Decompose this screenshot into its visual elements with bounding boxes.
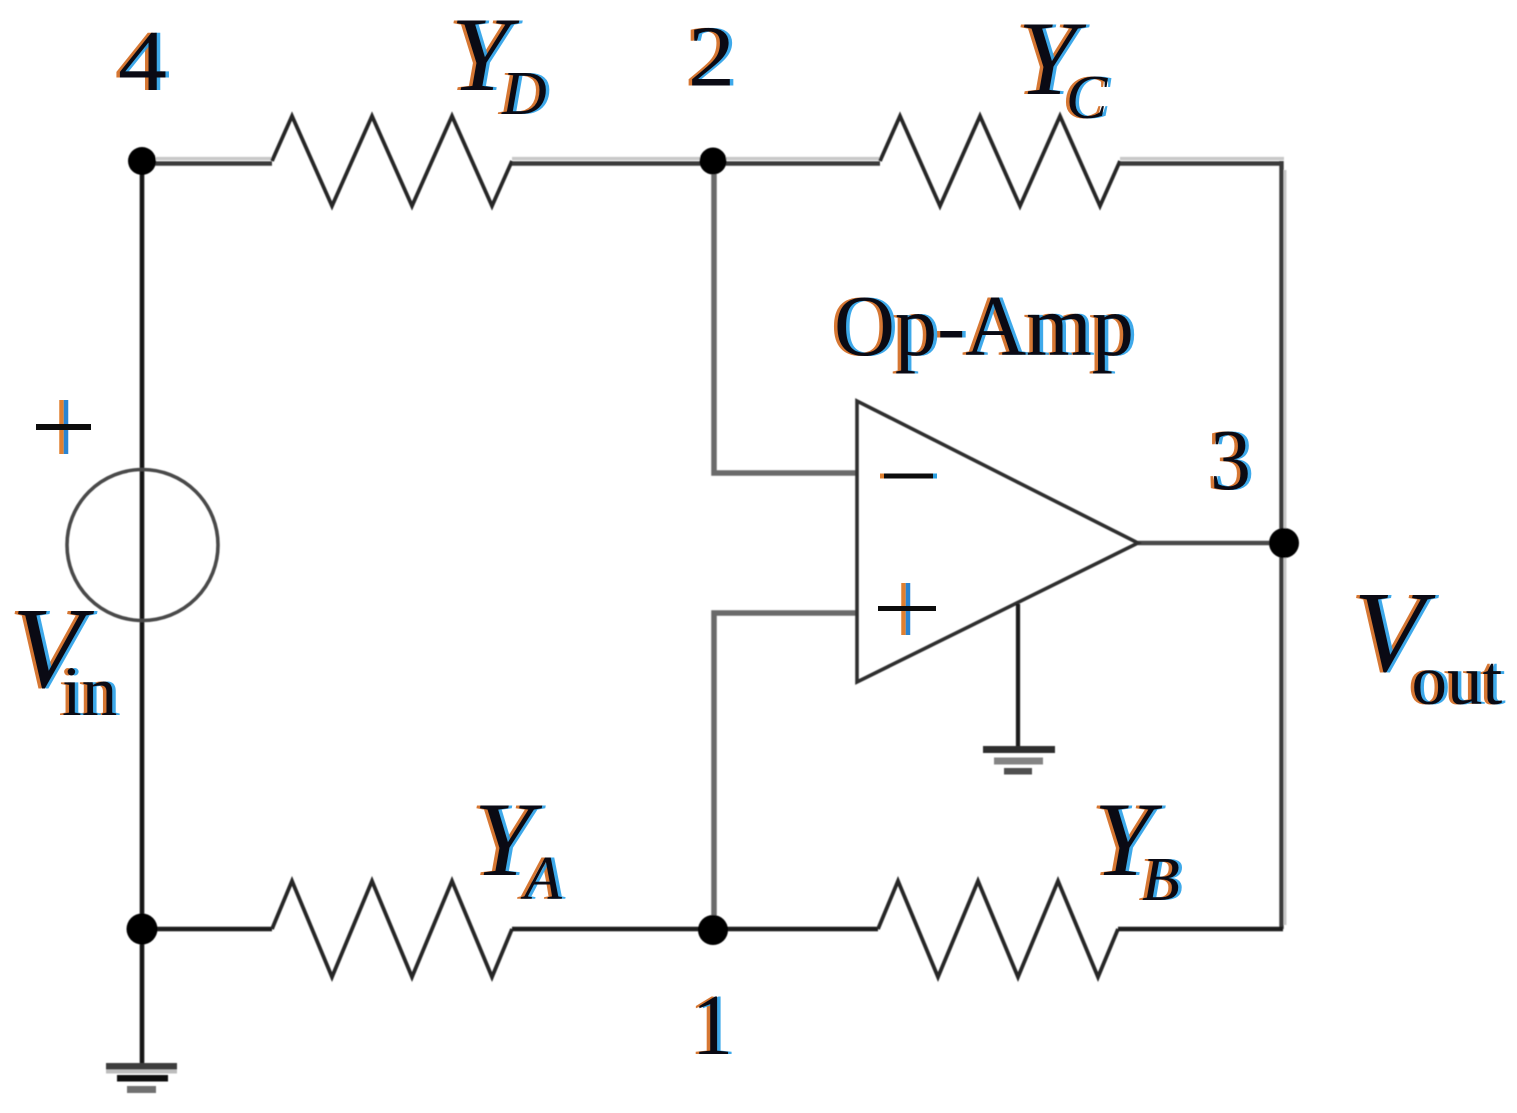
wire YA to node1 <box>512 927 713 931</box>
ground left bar3 <box>127 1086 156 1093</box>
wire node1 to YB <box>713 927 878 931</box>
svg-text:D: D <box>501 60 547 128</box>
ground left bar1 <box>106 1063 177 1070</box>
wire right rail vertical <box>1279 161 1283 929</box>
wire node2 drop to minus input <box>714 161 857 473</box>
wire YC to top right corner <box>1120 161 1282 165</box>
label node 2 <box>685 8 739 105</box>
svg-text:2: 2 <box>688 8 735 105</box>
label YD <box>447 0 550 128</box>
wire bottom rail left to YA <box>142 927 272 931</box>
wire node2 to YC <box>713 161 880 165</box>
op-amp plus input sign <box>878 583 936 635</box>
source Vin circle <box>67 470 218 621</box>
source polarity plus sign <box>36 400 91 454</box>
wire left rail vertical <box>140 161 145 1066</box>
resistor YA <box>272 881 512 977</box>
op-amp minus input sign <box>880 474 937 479</box>
node 4 junction dot <box>128 147 156 175</box>
op-amp U1 triangle <box>857 401 1138 682</box>
wire node1 rise to plus input <box>714 613 857 930</box>
label node 3 <box>1207 411 1255 508</box>
svg-text:4: 4 <box>118 12 167 109</box>
wire op-amp output to node3 <box>1138 541 1283 546</box>
resistor YD <box>272 116 512 206</box>
svg-text:1: 1 <box>692 976 733 1073</box>
op-amp ground bar1 <box>983 746 1055 753</box>
wire YD to node2 <box>512 161 713 165</box>
label node 1 <box>689 976 737 1073</box>
ground left bar2 <box>117 1075 168 1082</box>
label node 4 <box>115 12 171 109</box>
svg-text:A: A <box>520 845 563 913</box>
svg-text:out: out <box>1412 642 1503 720</box>
op-amp ground stem <box>1016 604 1020 749</box>
wire YB to bottom right corner <box>1118 927 1283 931</box>
op-amp ground bar3 <box>1004 768 1032 775</box>
svg-text:C: C <box>1066 64 1108 132</box>
label Op-Amp <box>831 277 1138 374</box>
node Vin top of source junction dot <box>127 914 158 945</box>
label Vin <box>9 585 121 731</box>
node 2 junction dot <box>700 148 727 175</box>
node 3 junction dot <box>1269 528 1299 558</box>
resistor YB <box>878 881 1118 977</box>
svg-text:Op-Amp: Op-Amp <box>834 277 1134 374</box>
resistor YC <box>880 116 1120 206</box>
svg-text:B: B <box>1142 846 1180 914</box>
svg-text:3: 3 <box>1210 411 1251 508</box>
node 1 junction dot <box>698 915 728 945</box>
svg-text:in: in <box>62 653 117 731</box>
wire top rail light edge <box>156 157 272 160</box>
op-amp ground bar2 <box>994 758 1043 765</box>
label Vout <box>1350 569 1506 720</box>
label YB <box>1090 781 1183 914</box>
wire top rail node4 to YD <box>142 161 272 165</box>
label YA <box>470 781 566 913</box>
label YC <box>1014 0 1111 132</box>
